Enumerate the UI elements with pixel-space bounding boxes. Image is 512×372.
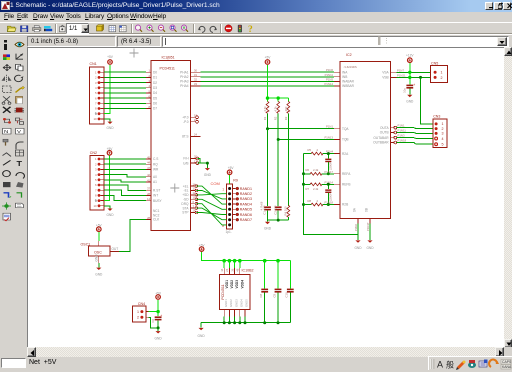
svg-text:C6: C6 [151, 318, 155, 322]
svg-text:VDD4: VDD4 [240, 280, 244, 289]
wire C5 to ground [409, 89, 411, 95]
svg-text:C2 47P: C2 47P [273, 205, 277, 214]
zoom lens 3 [158, 25, 165, 32]
scrollbars [504, 47, 512, 348]
svg-text:10u: 10u [403, 88, 407, 93]
svg-text:RAND5: RAND5 [240, 208, 252, 212]
svg-text:+5V: +5V [265, 56, 272, 60]
svg-text:2: 2 [441, 76, 443, 80]
svg-text:VSB: VSB [382, 76, 388, 80]
svg-text:+EL: +EL [183, 184, 189, 188]
svg-text:24: 24 [194, 133, 197, 137]
junction [277, 138, 280, 141]
wire IC2 0A to ground [354, 224, 358, 241]
svg-text:GND4: GND4 [240, 299, 244, 307]
svg-text:P1N13: P1N13 [324, 136, 333, 140]
stop sign [225, 25, 232, 32]
svg-text:-SD: -SD [183, 198, 189, 202]
r5: cut / paste [2, 96, 11, 104]
capacitor C5 [403, 83, 416, 93]
svg-text:7: 7 [95, 188, 97, 192]
svg-text:P1N18: P1N18 [324, 201, 333, 205]
svg-text:T: T [17, 160, 23, 168]
svg-text:INBBAR: INBBAR [342, 84, 355, 88]
op IC3 PCD4511 driver [220, 268, 254, 317]
svg-text:PHA2: PHA2 [180, 75, 189, 79]
net label COM [211, 181, 220, 186]
traffic light [238, 25, 242, 33]
wire PHA2 to IC2 INB [201, 73, 335, 77]
+5V supply at CN1 [107, 55, 114, 64]
svg-text:0A: 0A [353, 207, 357, 212]
svg-text:2: 2 [95, 76, 97, 80]
svg-text:U/B: U/B [183, 161, 188, 165]
svg-text:GND: GND [155, 337, 163, 341]
zoom lens 4 [170, 25, 177, 32]
resistor R4 [284, 205, 290, 217]
ground at OSC1 [95, 268, 103, 277]
svg-text:P3N6: P3N6 [354, 224, 358, 231]
svg-text:VDD3: VDD3 [235, 280, 239, 289]
capacitor C2 [273, 205, 281, 214]
r1: display / mark [3, 54, 10, 60]
svg-text:A: A [437, 360, 443, 370]
svg-text:GND: GND [204, 173, 212, 177]
svg-text:STP: STP [182, 211, 188, 215]
wire to ground [157, 328, 159, 331]
wire +5V down to pullup rail [268, 65, 289, 102]
wire +5V to R9 COM [229, 175, 231, 184]
wire IC1 DRQ to R9 [196, 204, 226, 225]
wire CN2 pin1 to IC1 C.S [104, 158, 146, 160]
svg-text:R2B: R2B [342, 203, 348, 207]
svg-text:4: 4 [442, 137, 444, 141]
wire +5V to VDD rail [202, 252, 291, 261]
r4: group / change [3, 86, 12, 92]
svg-text:1: 1 [442, 122, 444, 126]
svg-text:9: 9 [95, 112, 97, 116]
wire CN2 pin6 to IC1 R.ST [104, 185, 146, 190]
svg-text:KANA: KANA [502, 365, 512, 369]
svg-text:C.S: C.S [153, 157, 158, 161]
svg-text:+5V: +5V [107, 55, 114, 59]
r6: delete / add [3, 107, 11, 113]
svg-text:+SD: +SD [182, 193, 189, 197]
svg-text:GND: GND [406, 100, 414, 104]
svg-text:R8: R8 [308, 199, 312, 203]
svg-text:+5V: +5V [228, 166, 235, 170]
+5V supply at R9 [227, 166, 234, 175]
svg-text:8T.S: 8T.S [182, 135, 188, 139]
wire IC1 STP to R9 [196, 213, 226, 215]
op IC2 L6219 [334, 53, 397, 223]
svg-text:8: 8 [222, 224, 224, 228]
wire OUTABAR to CN3 [397, 134, 433, 139]
capacitor C3 [325, 152, 332, 175]
svg-text:CN3: CN3 [433, 114, 440, 118]
svg-text:RAND7: RAND7 [240, 218, 252, 222]
svg-text:D0: D0 [153, 70, 157, 74]
svg-text:GND1: GND1 [224, 299, 228, 307]
svg-text:CN5: CN5 [431, 61, 438, 65]
svg-text:2: 2 [317, 199, 319, 203]
zoom lens 5 [181, 25, 188, 32]
wire +12V down [409, 63, 411, 84]
wire column C down to R4 [287, 113, 289, 206]
svg-text:C9: C9 [272, 293, 276, 297]
junction [266, 96, 280, 99]
svg-text:RAND2: RAND2 [240, 192, 252, 196]
resistor R3 [284, 101, 290, 120]
resistor R5 [304, 148, 335, 155]
capacitor C6 [151, 312, 163, 328]
wire CN2 pin7 to IC1 INT [104, 190, 146, 195]
svg-text:GND: GND [366, 246, 374, 250]
svg-text:PHA1: PHA1 [180, 70, 189, 74]
svg-text:P1N17: P1N17 [324, 170, 333, 174]
svg-text:0B: 0B [365, 208, 369, 212]
svg-text:D3: D3 [153, 86, 157, 90]
svg-text:-EL: -EL [184, 189, 189, 193]
svg-text:C8: C8 [259, 293, 263, 297]
svg-text:R5: R5 [308, 148, 312, 152]
svg-text:R3: R3 [284, 116, 288, 120]
svg-text:-P.0: -P.0 [183, 120, 189, 124]
wire OSC1 GND pin down [98, 263, 100, 268]
frame cross top [130, 49, 139, 58]
svg-text:PHA4: PHA4 [180, 84, 189, 88]
svg-text:PCD4511: PCD4511 [160, 66, 175, 70]
svg-text:48: 48 [236, 268, 240, 272]
ground at divider [264, 222, 272, 231]
capacitor C4 [325, 183, 332, 206]
separator [193, 24, 194, 33]
ground at 0B [366, 240, 374, 250]
svg-text:C10: C10 [285, 292, 289, 298]
use (yellow box) [97, 25, 104, 31]
svg-text:2: 2 [95, 162, 97, 166]
svg-text:+12V: +12V [406, 54, 414, 58]
svg-text:CLK: CLK [153, 218, 160, 222]
svg-text:GND: GND [264, 227, 272, 231]
left tool palette [0, 36, 27, 347]
wire R1 to TQA [267, 113, 269, 128]
separator [131, 24, 132, 33]
svg-text:DRQ: DRQ [181, 202, 189, 206]
svg-text:PHA3: PHA3 [180, 80, 189, 84]
toolbar row 2 [0, 34, 512, 47]
svg-text:8: 8 [95, 194, 97, 198]
toolbar row 1 [0, 22, 512, 34]
svg-text:R1: R1 [263, 116, 267, 120]
svg-text:P1N18: P1N18 [398, 139, 407, 143]
svg-text:P1N6: P1N6 [326, 68, 333, 72]
junction VDD rail [222, 259, 279, 263]
wire CN2 pin3 to IC1 WR [104, 168, 146, 170]
junction [157, 326, 160, 329]
wire +5V to OSC1 [98, 232, 100, 241]
connector CN5 [431, 61, 448, 82]
wire +5V to CN1 pin9 [104, 65, 110, 114]
svg-text:<L6219DS: <L6219DS [344, 65, 357, 69]
wire IC2 0B to ground [366, 222, 370, 240]
capacitor C10 [285, 261, 294, 323]
svg-text:24: 24 [225, 268, 229, 272]
wire IC1 -SD to R9 [196, 199, 226, 209]
svg-text:6: 6 [95, 183, 97, 187]
oscillator OSC1 [81, 241, 119, 263]
resistor R6 [304, 168, 335, 175]
ground rail under IC3 [201, 323, 290, 328]
svg-text:CN2: CN2 [90, 151, 97, 155]
svg-text:IC10B2: IC10B2 [242, 268, 254, 272]
svg-text:1: 1 [95, 157, 97, 161]
IME language bar [428, 356, 512, 370]
wire OSC1 OUT to IC1 CLK [119, 219, 146, 251]
svg-text:V: V [17, 130, 21, 135]
zoom combo [66, 23, 89, 34]
svg-text:VDD2: VDD2 [230, 280, 234, 289]
open folder [8, 26, 17, 31]
junction [156, 310, 159, 313]
svg-text:P1N11: P1N11 [325, 73, 334, 77]
wire VSB branch to CN3 pin1 [421, 77, 434, 124]
wire OUTB to CN3 [397, 129, 433, 134]
svg-text:GND: GND [95, 272, 103, 276]
wire CN2 pin10 to ground [104, 206, 110, 209]
resistor R2 [274, 101, 280, 120]
+5V supply at CN4 [155, 291, 162, 299]
svg-text:STA: STA [183, 206, 190, 210]
svg-text:4.7k: 4.7k [274, 106, 278, 112]
svg-text:+P.0: +P.0 [182, 115, 188, 119]
svg-text:1: 1 [137, 310, 139, 314]
svg-text:P1N14: P1N14 [324, 82, 333, 86]
svg-text:D1: D1 [153, 76, 157, 80]
svg-text:GND: GND [198, 334, 206, 338]
zoom lens 1 [135, 25, 142, 32]
+5V supply at OSC1 [96, 223, 103, 231]
svg-text:WR: WR [153, 168, 159, 172]
svg-text:D2: D2 [153, 81, 157, 85]
connector CN3 [433, 114, 447, 147]
junction [302, 172, 305, 206]
+5V supply at CN2 [107, 147, 114, 155]
svg-text:GND3: GND3 [234, 299, 238, 307]
svg-text:R.ST: R.ST [153, 189, 160, 193]
junction gnd rail [223, 321, 280, 324]
wire TQA to IC2 [268, 125, 335, 129]
svg-text:P1N1: P1N1 [398, 124, 405, 128]
capacitor C8 [259, 261, 268, 323]
+12V supply [406, 54, 414, 63]
canvas [27, 47, 504, 347]
svg-text:5: 5 [442, 143, 444, 147]
svg-text:R6: R6 [306, 168, 310, 172]
wire column A down to C1 [267, 129, 269, 207]
svg-text:2.4k: 2.4k [313, 187, 319, 191]
svg-text:A0: A0 [153, 175, 157, 179]
svg-text:R4 100: R4 100 [284, 206, 288, 215]
+5V supply at IC3 [199, 243, 206, 251]
svg-text:4: 4 [95, 86, 97, 90]
svg-text:A1: A1 [153, 180, 157, 184]
svg-text:R2: R2 [274, 116, 278, 120]
connector CN4 [132, 302, 148, 322]
wire VSA to CN5 pin1 [397, 68, 431, 72]
wire CN2 pin4 to IC1 A0 [104, 175, 146, 177]
r9: smash / miter [3, 139, 8, 145]
svg-text:R9: R9 [233, 179, 238, 183]
ground at 0A [354, 240, 362, 250]
svg-text:18: 18 [194, 113, 197, 117]
svg-text:GND5: GND5 [245, 299, 249, 307]
svg-text:OUTB: OUTB [380, 131, 389, 135]
junction VSB branch [419, 76, 422, 79]
svg-text:GND2: GND2 [229, 299, 233, 307]
separator [220, 24, 221, 33]
svg-text:INB: INB [342, 75, 347, 79]
svg-text:TQB: TQB [342, 138, 349, 142]
svg-text:10: 10 [93, 117, 97, 121]
svg-text:7: 7 [95, 102, 97, 106]
svg-text:P1N7: P1N7 [397, 68, 404, 72]
wire OUTA to CN3 [397, 124, 433, 129]
svg-text:9: 9 [95, 199, 97, 203]
resistor R7 [304, 180, 335, 191]
ground at CN2 [106, 209, 114, 218]
wire OUTBBAR to CN3 [397, 139, 433, 145]
r2: move / copy [3, 64, 11, 70]
wire CN2 pin2 to IC1 RQ [104, 163, 146, 165]
wire IC1 +EL to R9 [196, 186, 226, 204]
wire +5V to CN4 pin1 [149, 300, 159, 312]
svg-text:3: 3 [95, 81, 97, 85]
svg-text:F/H: F/H [183, 157, 189, 161]
svg-text:OUTA: OUTA [380, 126, 389, 130]
printer [33, 26, 41, 32]
wire CN2 pin5 to IC1 A1 [104, 180, 146, 182]
svg-text:IC2: IC2 [346, 53, 352, 57]
r15: junction / label [2, 202, 11, 209]
svg-text:D7: D7 [153, 107, 157, 111]
svg-text:P1N3: P1N3 [398, 134, 405, 138]
bus wires CN1 pins1-8 to IC1 D0-D7 [104, 72, 146, 108]
svg-text:P1N5: P1N5 [326, 77, 333, 81]
svg-text:N: N [4, 130, 8, 135]
wire TQB to IC2 [278, 136, 334, 140]
svg-text:CAPS: CAPS [502, 360, 512, 364]
svg-text:RAND3: RAND3 [240, 197, 252, 201]
r11: wire / text [3, 160, 11, 165]
wire CN1 pin10 to ground [104, 119, 110, 122]
svg-text:OUTBBAR: OUTBBAR [373, 141, 389, 145]
svg-text:5: 5 [95, 178, 97, 182]
svg-text:6: 6 [95, 96, 97, 100]
connector CN2 [90, 151, 104, 210]
zoom lens 2 [147, 25, 154, 32]
svg-text:1: 1 [222, 187, 224, 191]
svg-text:REFA: REFA [342, 172, 351, 176]
svg-text:D4: D4 [153, 91, 157, 95]
svg-text:36: 36 [230, 268, 234, 272]
wire F/H U/B to ground [197, 159, 207, 168]
svg-text:CN4: CN4 [138, 302, 145, 306]
svg-text:GND: GND [354, 246, 362, 250]
svg-text:5: 5 [95, 91, 97, 95]
drop anchor icon [60, 25, 66, 32]
svg-text:4.7k: 4.7k [263, 106, 267, 112]
frame cross middle [170, 184, 179, 193]
wire PHA1 to IC2 INA [201, 68, 335, 72]
svg-text:P1N1: P1N1 [326, 125, 333, 129]
svg-text:IC1(B51: IC1(B51 [162, 56, 175, 60]
svg-text:2.4k: 2.4k [313, 168, 319, 172]
svg-text:2: 2 [317, 148, 319, 152]
svg-text:D6: D6 [153, 102, 157, 106]
capacitor C1 [263, 205, 271, 214]
svg-text:1: 1 [441, 71, 443, 75]
wire PHA3 to IC2 INABAR [201, 77, 335, 81]
wire PHA4 to IC2 INBBAR [201, 82, 335, 86]
svg-text:P1N21: P1N21 [397, 73, 406, 77]
wire IC1 -EL to R9 [196, 191, 226, 199]
r8: name / value [3, 128, 12, 135]
r3: mirror / rotate [2, 75, 12, 82]
svg-text:GND: GND [106, 213, 114, 217]
r16: erc [3, 213, 11, 221]
r14: bus / net [4, 193, 12, 198]
grid icon 2 [120, 26, 127, 32]
r13: rect / polygon [3, 182, 11, 187]
menu bar [0, 12, 512, 22]
redo [210, 26, 216, 32]
svg-text:RAND4: RAND4 [240, 202, 252, 206]
connector CN1 [90, 62, 104, 124]
svg-text:3: 3 [442, 132, 444, 136]
svg-text:D5: D5 [153, 96, 157, 100]
ground at CN1 [106, 122, 114, 131]
resistor network R9 [222, 179, 263, 235]
svg-text:INA: INA [342, 70, 348, 74]
svg-text:P1N11: P1N11 [398, 129, 407, 133]
command line + status [0, 357, 512, 370]
wire GND stubs to rail [224, 316, 245, 322]
wire CN2 pin8 to IC1 BUSY [104, 195, 146, 200]
op IC1 PCD4511 [146, 56, 201, 231]
capacitor C9 [272, 261, 281, 323]
svg-text:?: ? [248, 25, 253, 34]
sense column wire [304, 154, 359, 235]
svg-text:REFB: REFB [342, 183, 351, 187]
svg-text:OUT: OUT [112, 247, 119, 251]
save floppy [21, 26, 28, 32]
separator [55, 24, 56, 33]
svg-text:1p1.: 1p1. [226, 230, 232, 234]
svg-text:VDD1: VDD1 [225, 280, 229, 289]
svg-text:RAND6: RAND6 [240, 213, 252, 217]
wire +5V to CN2 pin9 [104, 156, 110, 201]
svg-text:+: + [413, 83, 415, 87]
svg-text:般: 般 [446, 360, 454, 370]
svg-text:INT: INT [153, 194, 158, 198]
svg-text:OUTABAR: OUTABAR [373, 136, 389, 140]
resistor R8 [304, 199, 335, 206]
junction [266, 127, 269, 130]
svg-text:4: 4 [95, 173, 97, 177]
wire column B down to C2 [277, 140, 279, 207]
svg-text:RAND1: RAND1 [240, 187, 252, 191]
